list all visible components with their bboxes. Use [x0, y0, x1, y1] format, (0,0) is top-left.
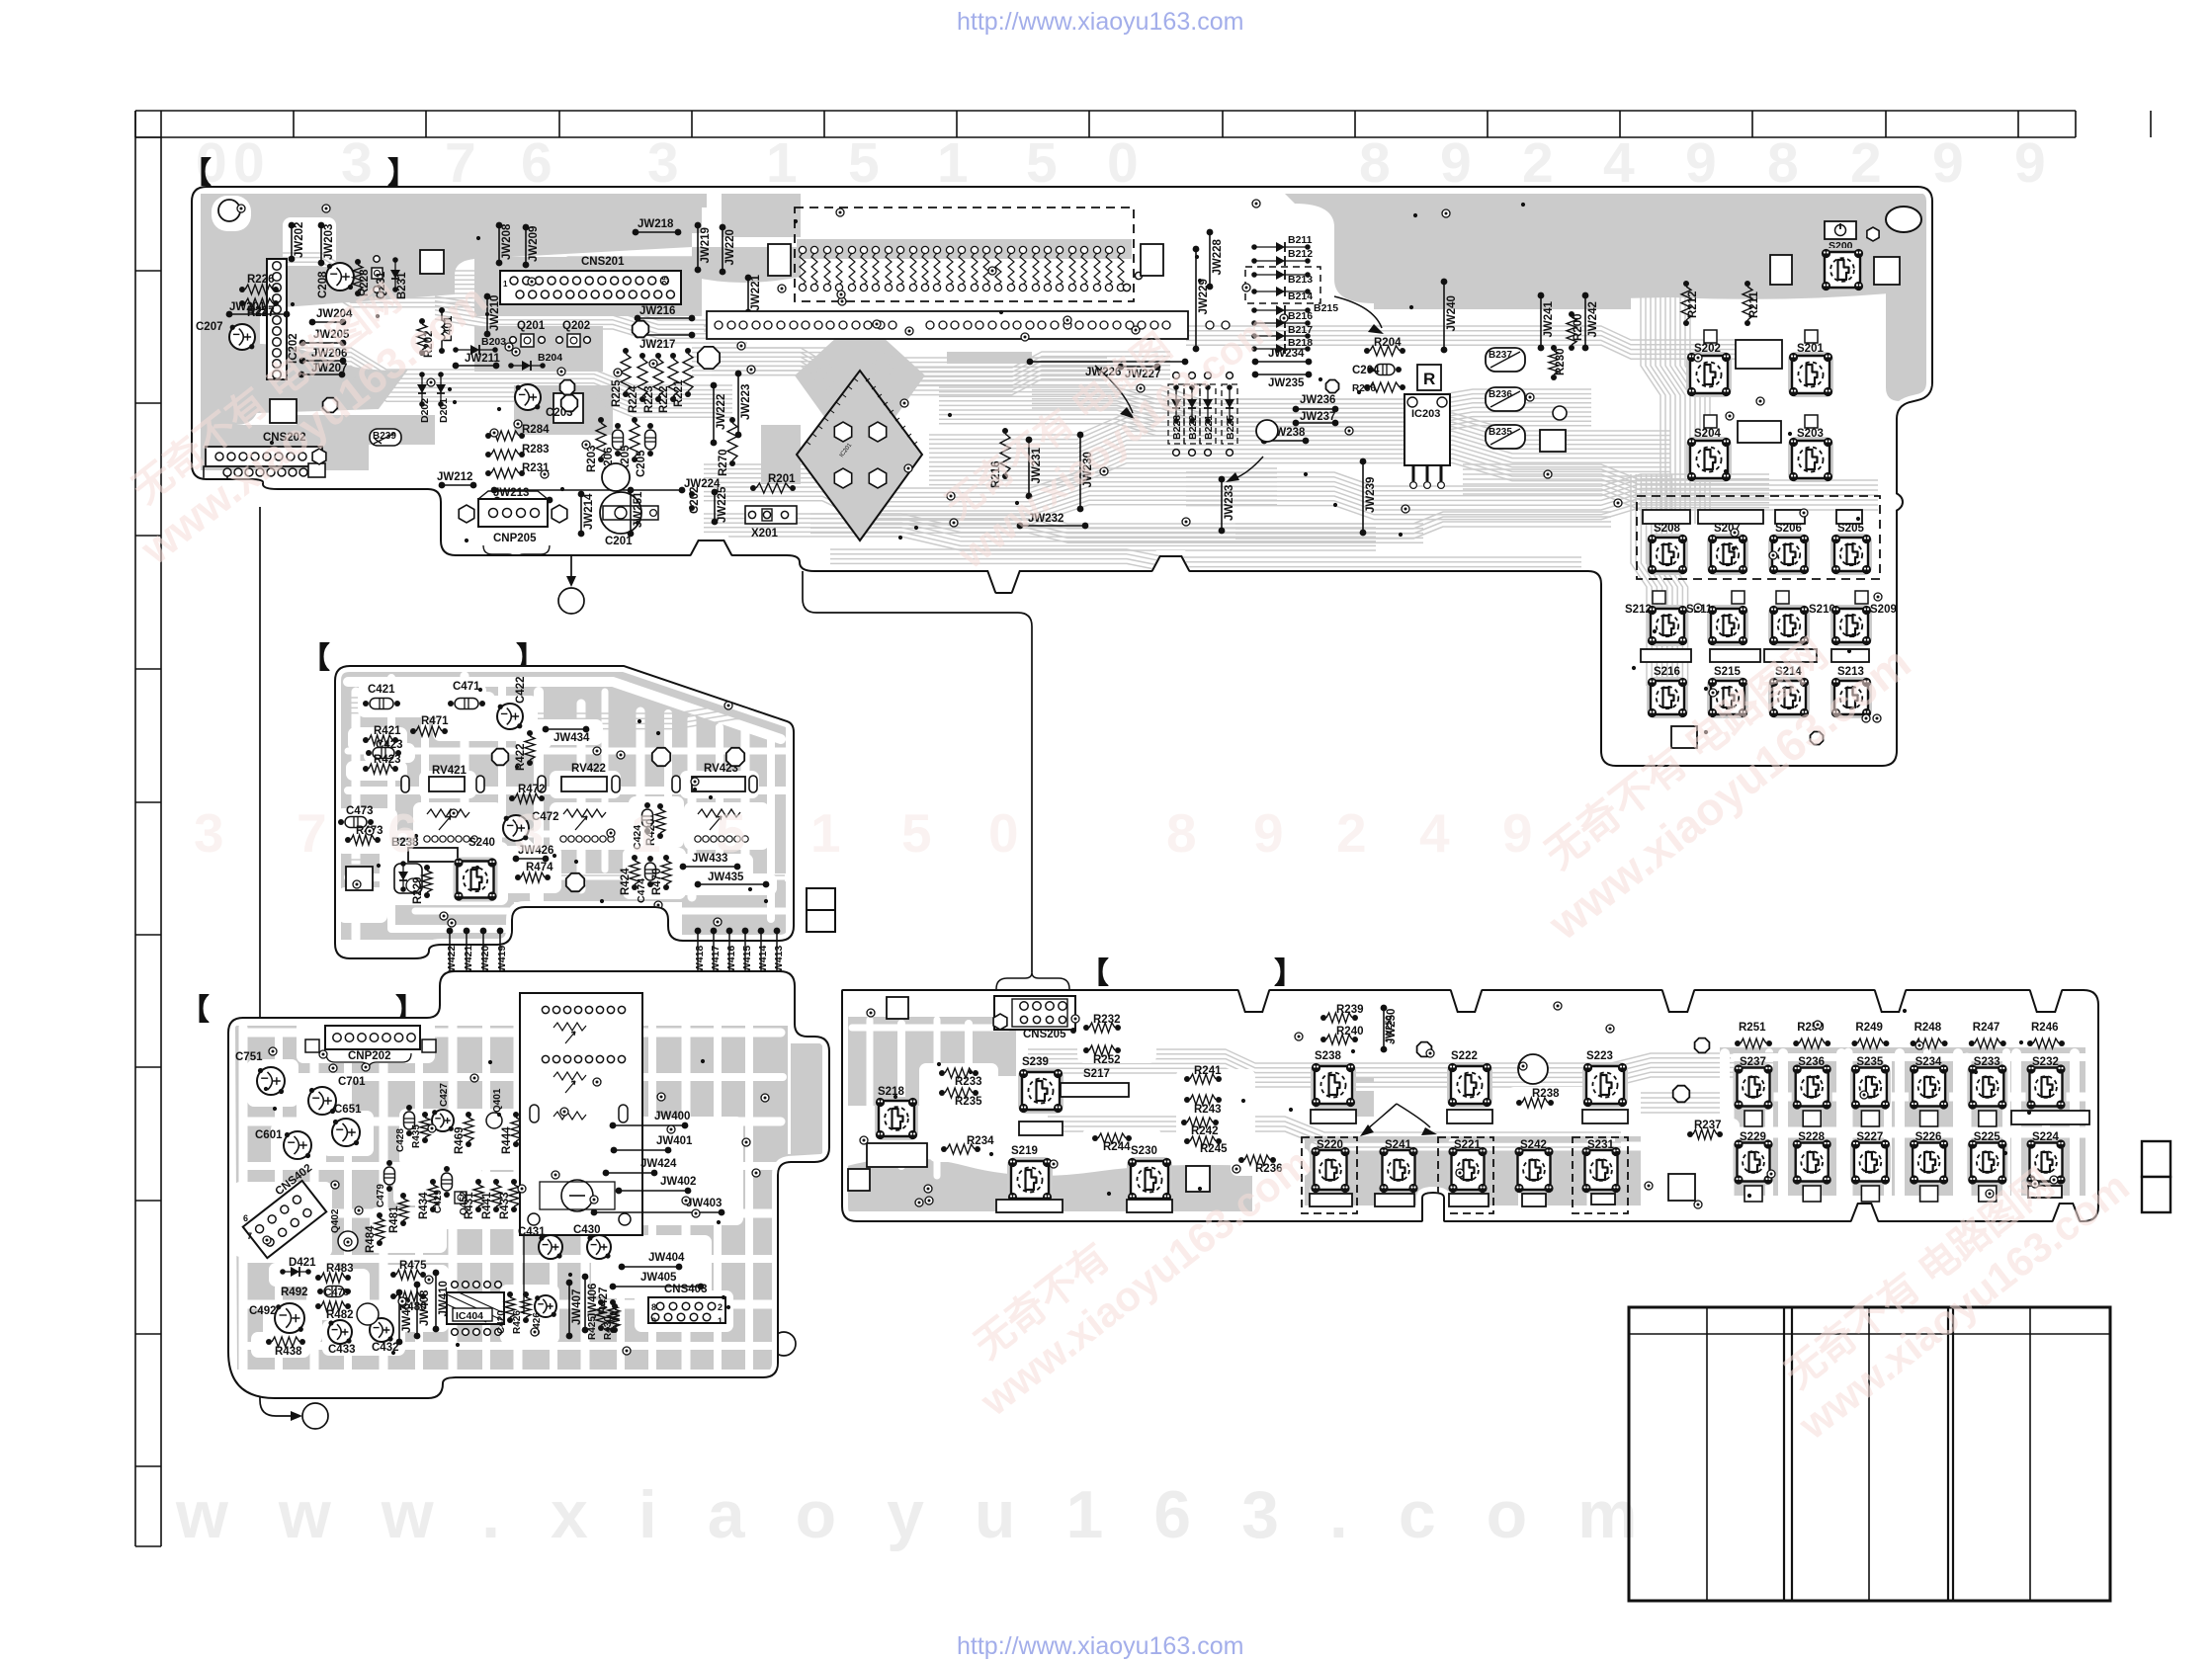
svg-text:B235: B235	[1489, 427, 1512, 438]
ruler left band	[135, 111, 161, 1546]
rect pad left of S200	[1770, 255, 1792, 285]
resistor R469	[466, 1112, 471, 1118]
svg-text:JW225: JW225	[717, 486, 728, 523]
copper pour big top-right block	[1285, 194, 1927, 303]
via speckle board A	[394, 489, 398, 493]
resistor R212	[1683, 281, 1689, 287]
hole A2	[633, 321, 649, 338]
switch S234	[1909, 1064, 1949, 1111]
svg-text:JW221: JW221	[750, 274, 762, 310]
watermark pink diagonal top-left	[101, 235, 496, 574]
board D outline (key PCB)	[843, 991, 2097, 1220]
resistor R227	[239, 300, 245, 306]
svg-text:S209: S209	[1870, 604, 1897, 616]
rect below S241	[1375, 1194, 1414, 1206]
svg-text:B222: B222	[1187, 415, 1199, 440]
switch S239	[1018, 1068, 1063, 1114]
watermark pink diagonal bottom right	[1760, 1125, 2137, 1449]
diode B211	[1251, 244, 1257, 250]
svg-text:S220: S220	[1317, 1139, 1343, 1151]
svg-text:JW407: JW407	[571, 1289, 583, 1325]
diode B218	[1251, 346, 1257, 352]
capacitor C426	[535, 1295, 556, 1317]
svg-text:JW242: JW242	[1587, 301, 1599, 337]
svg-text:S230: S230	[1131, 1145, 1157, 1157]
svg-text:JW424: JW424	[640, 1158, 677, 1170]
jumper JW205	[299, 340, 306, 347]
svg-text:R426: R426	[512, 1310, 523, 1334]
svg-text:R471: R471	[421, 715, 449, 727]
dashed box S220	[1302, 1137, 1357, 1213]
jumper JW233	[1219, 476, 1226, 483]
rect pad A10	[1540, 430, 1566, 452]
jumper JW403	[591, 1209, 598, 1216]
switch S221	[1448, 1146, 1489, 1194]
resistor R206	[1364, 384, 1370, 390]
connector CNS403	[648, 1297, 725, 1323]
resistor R470	[663, 855, 669, 861]
white channels board D	[852, 1025, 1008, 1032]
boxed R symbol	[1417, 365, 1441, 390]
svg-text:C420: C420	[496, 1310, 507, 1334]
resistor R471	[410, 728, 416, 734]
svg-text:C701: C701	[338, 1076, 366, 1088]
svg-text:【: 【	[180, 994, 210, 1027]
page join squares right of board D	[2142, 1141, 2170, 1177]
svg-text:8: 8	[1767, 131, 1799, 195]
svg-text:S206: S206	[1775, 523, 1802, 535]
svg-text:JW434: JW434	[553, 732, 590, 744]
svg-text:JW219: JW219	[700, 227, 712, 263]
resistor R231	[485, 470, 491, 476]
svg-text:5: 5	[716, 802, 746, 864]
svg-text:C427: C427	[439, 1083, 450, 1107]
jumper JW202	[289, 222, 296, 229]
svg-text:JW233: JW233	[1224, 485, 1235, 521]
svg-text:R225: R225	[611, 379, 623, 407]
svg-text:JW203: JW203	[323, 224, 335, 260]
switch S232	[2026, 1064, 2067, 1111]
svg-text:9: 9	[651, 1316, 656, 1326]
svg-text:C430: C430	[573, 1224, 601, 1236]
svg-text:9: 9	[1253, 802, 1284, 864]
svg-text:R423: R423	[374, 754, 401, 766]
capacitor C473	[338, 819, 344, 825]
hole B3	[566, 873, 584, 891]
capacitor C431	[539, 1235, 562, 1259]
wire traces bundle right of diamond	[929, 413, 1670, 435]
switch S219	[1007, 1157, 1053, 1203]
resistor R204b	[1364, 348, 1370, 354]
svg-text:www.xiaoyu163.com: www.xiaoyu163.com	[175, 1477, 1688, 1552]
resistor bank dashed box	[795, 208, 1134, 301]
capacitor C433	[328, 1320, 352, 1344]
rect between S202 S201	[1736, 340, 1782, 369]
svg-text:R232: R232	[1093, 1014, 1121, 1026]
resistor R431	[475, 1179, 481, 1185]
capacitor C201	[600, 492, 641, 534]
svg-text:C208: C208	[317, 271, 329, 298]
svg-text:S216: S216	[1654, 666, 1680, 678]
svg-text:6: 6	[521, 131, 553, 195]
svg-text:B214: B214	[1288, 291, 1313, 302]
switch S241	[1379, 1146, 1419, 1194]
diode B216	[1251, 320, 1257, 326]
resistor R222	[670, 353, 676, 359]
jumper JW214	[578, 491, 585, 498]
diode B215	[1251, 307, 1257, 313]
pot network 2	[563, 809, 606, 830]
resistor R249	[1851, 1040, 1857, 1046]
resistor R211	[1744, 281, 1750, 287]
svg-text:Q201: Q201	[517, 320, 546, 332]
switch S231	[1581, 1146, 1622, 1194]
svg-text:【: 【	[182, 157, 212, 190]
hole A1	[698, 347, 720, 369]
rect below S221	[1449, 1194, 1489, 1206]
resistor R252	[1083, 1047, 1089, 1053]
white islands board D	[919, 1063, 998, 1111]
svg-text:JW222: JW222	[716, 394, 727, 430]
rect pad above S204	[1704, 415, 1717, 428]
jumper JW240	[1441, 279, 1448, 286]
hole D octagon	[1417, 1042, 1432, 1057]
svg-text:S241: S241	[1385, 1139, 1411, 1151]
svg-text:B217: B217	[1288, 324, 1313, 336]
resistor R238	[1516, 1100, 1522, 1106]
motor symbol	[561, 1180, 593, 1211]
resistor R250	[1793, 1040, 1799, 1046]
transistor Q202	[567, 334, 580, 347]
connector CNS201	[500, 271, 681, 304]
rect pad below S225	[1979, 1186, 1997, 1202]
hole B2	[652, 748, 670, 766]
copper pour behind resistor bank	[797, 239, 1132, 259]
rect pad left of bank	[768, 244, 791, 276]
rect below S219	[996, 1200, 1063, 1212]
hole B1	[492, 749, 509, 766]
resistor R424	[632, 855, 638, 861]
svg-text:JW401: JW401	[656, 1135, 693, 1147]
capacitor C479	[384, 1160, 395, 1192]
capacitor C751	[257, 1067, 285, 1095]
svg-text:R211: R211	[1748, 291, 1760, 318]
resistor R228	[355, 259, 361, 265]
rect pad right of bank	[1141, 244, 1163, 276]
svg-text:S229: S229	[1740, 1131, 1766, 1143]
switch S227	[1850, 1139, 1891, 1186]
white channels board C	[247, 1029, 781, 1038]
rect labels below row2	[1641, 649, 1691, 662]
jumper JW220	[720, 224, 726, 231]
svg-text:1: 1	[766, 131, 798, 195]
crystal X201	[745, 506, 797, 524]
resistor R236	[1238, 1157, 1244, 1163]
switch S242	[1514, 1146, 1555, 1194]
rect under S224	[2028, 1186, 2062, 1198]
svg-text:R230: R230	[1555, 349, 1567, 376]
connector CNS205	[994, 996, 1075, 1030]
rect pad bottom left	[1671, 726, 1697, 748]
svg-text:R204: R204	[1374, 337, 1402, 349]
switch S213	[1830, 677, 1872, 718]
svg-text:R481: R481	[388, 1205, 400, 1233]
white islands board C	[297, 1020, 435, 1063]
pins JW418-JW413	[695, 928, 702, 935]
svg-text:8: 8	[1166, 802, 1197, 864]
svg-text:R249: R249	[1855, 1022, 1883, 1034]
resistor R248	[1911, 1040, 1916, 1046]
switch S210	[1768, 605, 1810, 646]
resistor R473	[345, 837, 351, 843]
svg-text:B203: B203	[481, 336, 506, 348]
switch S212	[1647, 605, 1688, 646]
wire annotation bottom-left board to circle	[748, 1287, 759, 1344]
svg-text:R212: R212	[1687, 291, 1699, 319]
svg-text:RV421: RV421	[432, 765, 468, 777]
trimmer network C3	[553, 1112, 586, 1120]
transistor Q401	[486, 1113, 502, 1128]
jumper JW221	[745, 275, 752, 282]
svg-text:JW212: JW212	[437, 471, 472, 483]
svg-text:IC203: IC203	[1411, 408, 1440, 420]
switch S211	[1707, 605, 1748, 646]
svg-text:R484: R484	[365, 1225, 377, 1253]
trimmer RV423	[692, 777, 745, 791]
resistor R247	[1969, 1040, 1975, 1046]
svg-text:R244: R244	[1103, 1141, 1131, 1153]
svg-text:B239: B239	[373, 431, 396, 442]
trace bundle B1	[340, 698, 913, 713]
rect below S238	[1311, 1110, 1356, 1123]
jumper JW210	[484, 293, 491, 300]
resistor R244	[1092, 1135, 1098, 1141]
svg-text:0: 0	[988, 802, 1019, 864]
jumper JW223	[735, 371, 742, 377]
resistor R444	[513, 1112, 519, 1118]
jumper JW213	[494, 497, 501, 504]
svg-text:R492: R492	[281, 1287, 308, 1298]
resistor R205	[632, 417, 638, 423]
switch S236	[1792, 1064, 1832, 1111]
connector CNP205	[478, 499, 548, 527]
resistor R472	[509, 795, 515, 801]
capacitor C428	[404, 1105, 415, 1136]
svg-text:S219: S219	[1011, 1145, 1038, 1157]
svg-text:B204: B204	[538, 352, 562, 364]
diode B203	[453, 347, 459, 353]
connector CNS202	[206, 447, 322, 466]
rect pad below S237	[1744, 1111, 1762, 1126]
svg-text:3: 3	[514, 802, 545, 864]
svg-text:S232: S232	[2032, 1056, 2059, 1068]
jumper JW211	[453, 363, 460, 370]
hole A4	[602, 463, 630, 491]
capacitor C471	[448, 701, 454, 706]
wire annotation left vertical to circle	[260, 507, 291, 1416]
rect pad below S235	[1861, 1111, 1879, 1126]
svg-text:C423: C423	[376, 739, 403, 751]
resistor R246	[2027, 1040, 2033, 1046]
rect pad D2	[848, 1169, 870, 1191]
jumper JW408	[414, 1282, 421, 1288]
svg-text:C601: C601	[255, 1129, 283, 1141]
svg-text:http://www.xiaoyu163.com: http://www.xiaoyu163.com	[957, 1632, 1243, 1660]
resistor R239	[1320, 1015, 1326, 1021]
resistor R483	[315, 1275, 321, 1281]
trimmer RV422	[561, 777, 607, 791]
svg-text:R224: R224	[628, 385, 639, 413]
resistor R201	[750, 485, 756, 491]
svg-text:5: 5	[901, 802, 932, 864]
svg-text:JW201: JW201	[229, 301, 266, 313]
svg-text:S224: S224	[2032, 1131, 2059, 1143]
rect below S239	[1019, 1122, 1063, 1135]
capacitor C204	[1368, 367, 1374, 373]
rect below S231	[1591, 1194, 1615, 1205]
capacitor C651	[332, 1119, 360, 1146]
svg-text:S239: S239	[1022, 1056, 1049, 1068]
switch S222	[1447, 1062, 1492, 1108]
svg-text:JW404: JW404	[648, 1252, 685, 1264]
board B outline (volume PCB)	[336, 667, 793, 957]
copper pour D lower band	[847, 1158, 1252, 1211]
via speckle board C	[362, 1063, 370, 1071]
bead B237	[1486, 348, 1525, 372]
bead B235	[1486, 425, 1525, 449]
svg-text:25: 25	[661, 276, 670, 285]
jumper JW402	[616, 1188, 623, 1195]
svg-text:CNP202: CNP202	[348, 1050, 390, 1062]
switch S206	[1768, 534, 1810, 575]
svg-text:B231: B231	[396, 272, 408, 299]
connector CNS402	[243, 1181, 327, 1258]
svg-text:5: 5	[848, 131, 880, 195]
svg-text:S205: S205	[1837, 523, 1864, 535]
wire traces bundle left	[203, 253, 697, 271]
hole A3	[561, 395, 578, 412]
svg-text:B212: B212	[1288, 248, 1313, 260]
resistor R229	[424, 865, 430, 871]
board C outline (amplifier PCB)	[229, 972, 828, 1397]
svg-text:R223: R223	[643, 386, 655, 414]
rect pad B left	[346, 867, 373, 890]
resistor R224	[639, 353, 645, 359]
switch S235	[1850, 1064, 1891, 1111]
switch S229	[1734, 1139, 1774, 1186]
pill holes board C	[530, 1105, 539, 1122]
resistor R433	[511, 1179, 517, 1185]
svg-text:9: 9	[1440, 131, 1472, 195]
svg-text:S221: S221	[1454, 1139, 1481, 1151]
white islands board B	[358, 684, 486, 717]
switch S237	[1734, 1064, 1774, 1111]
hole A8	[1326, 380, 1339, 393]
dashed box S205-S208	[1637, 496, 1880, 579]
big rect trimmer block	[520, 993, 642, 1235]
capacitor C420	[507, 1291, 513, 1297]
svg-text:7: 7	[445, 131, 476, 195]
svg-text:D201: D201	[438, 398, 450, 423]
svg-text:B216: B216	[1288, 310, 1313, 322]
pad row extra right	[1123, 284, 1130, 291]
svg-text:R284: R284	[522, 424, 550, 436]
svg-text:B215: B215	[1314, 302, 1338, 314]
jumper JW232	[1017, 523, 1024, 530]
capacitor C478	[317, 1288, 323, 1294]
rect B238	[408, 848, 458, 862]
resistor R225	[623, 348, 629, 354]
diode B212	[1251, 258, 1257, 264]
diode B239	[370, 429, 401, 446]
rect below S220	[1310, 1194, 1352, 1206]
svg-text:D421: D421	[289, 1257, 316, 1269]
svg-text:R203: R203	[586, 446, 598, 473]
bead B236	[1486, 387, 1525, 411]
svg-text:JW214: JW214	[583, 493, 595, 530]
resistor R434	[430, 1179, 436, 1185]
svg-text:8: 8	[651, 1302, 656, 1312]
switch S215	[1707, 677, 1748, 718]
svg-text:3: 3	[647, 131, 679, 195]
svg-text:C651: C651	[334, 1104, 362, 1116]
switch S220	[1311, 1146, 1351, 1194]
svg-text:R434: R434	[418, 1192, 430, 1219]
svg-text:1: 1	[631, 802, 661, 864]
rect pad below S234	[1920, 1111, 1938, 1126]
svg-text:C751: C751	[235, 1051, 263, 1063]
rect pad D3	[1186, 1166, 1210, 1192]
svg-text:R201: R201	[768, 473, 796, 485]
svg-text:S225: S225	[1974, 1131, 2000, 1143]
svg-text:R483: R483	[326, 1263, 354, 1275]
svg-text:C429: C429	[433, 1190, 444, 1213]
jumper JW225	[712, 489, 719, 496]
IC201 diamond	[797, 371, 922, 540]
svg-text:X201: X201	[751, 528, 778, 540]
svg-text:RV422: RV422	[571, 763, 606, 775]
svg-text:R238: R238	[1532, 1088, 1560, 1100]
resistor R243	[1184, 1097, 1190, 1103]
hole D circle	[1518, 1054, 1548, 1084]
transistor Q452	[455, 1192, 467, 1204]
svg-text:R226: R226	[247, 274, 275, 286]
svg-text:R470: R470	[651, 869, 663, 896]
switch S224	[2026, 1139, 2067, 1186]
resistor R203	[598, 417, 604, 423]
resistor R422	[527, 730, 533, 736]
svg-text:4: 4	[1603, 131, 1635, 195]
long rect right under S232	[2011, 1111, 2089, 1124]
svg-text:R221: R221	[673, 379, 685, 407]
svg-text:R425: R425	[587, 1316, 598, 1340]
jumper JW435	[695, 881, 702, 888]
svg-text:JW435: JW435	[708, 872, 744, 883]
svg-text:C421: C421	[368, 684, 395, 696]
svg-text:CNP205: CNP205	[493, 533, 537, 544]
resistor R270	[729, 417, 735, 423]
svg-text:S236: S236	[1798, 1056, 1825, 1068]
ruler top band	[135, 111, 2151, 137]
svg-text:R240: R240	[1336, 1026, 1364, 1038]
resistor R482	[315, 1303, 321, 1309]
resistor R284	[485, 433, 491, 439]
svg-text:JW216: JW216	[639, 305, 675, 317]
hole top-left	[218, 200, 240, 221]
svg-text:R441: R441	[481, 1192, 493, 1219]
jumper JW409	[396, 1289, 403, 1296]
resistor R251	[1735, 1040, 1741, 1046]
